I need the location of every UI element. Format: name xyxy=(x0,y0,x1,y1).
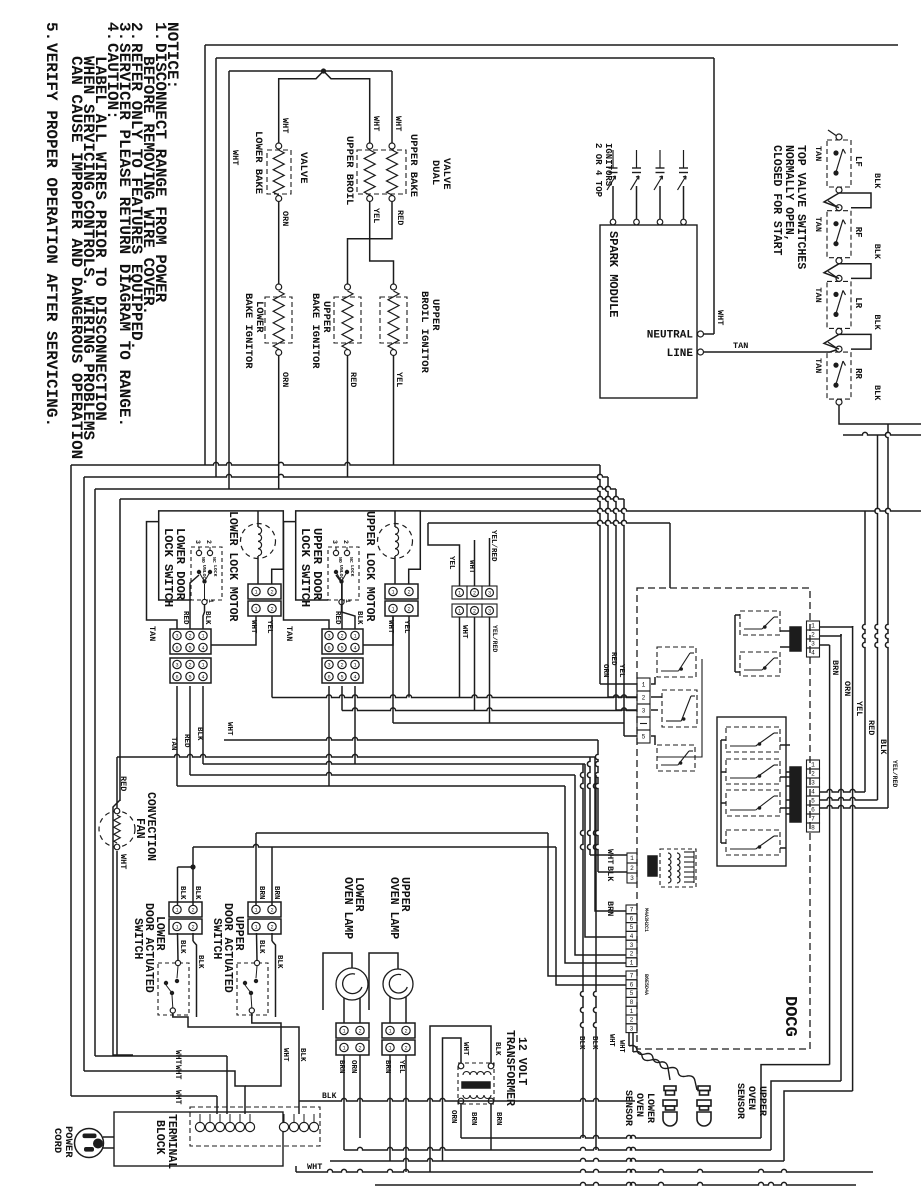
wire upper broil valve to upper broil ignitor xyxy=(370,202,394,284)
bus y740 xyxy=(224,737,598,740)
svg-text:RR: RR xyxy=(853,368,863,379)
svg-text:8: 8 xyxy=(630,999,634,1006)
wire BLK horizontal bottom xyxy=(299,1098,635,1101)
svg-text:LOCK: LOCK xyxy=(349,565,355,577)
svg-text:3: 3 xyxy=(630,875,634,882)
wire diagonal link xyxy=(824,193,839,208)
svg-text:5: 5 xyxy=(811,798,815,805)
relay K1 xyxy=(657,647,696,677)
LOWER door switch dashed box xyxy=(158,963,189,1015)
svg-text:4.: 4. xyxy=(103,22,121,41)
svg-text:BLK: BLK xyxy=(872,244,882,260)
svg-text:WHT: WHT xyxy=(281,1048,289,1062)
svg-text:TAN: TAN xyxy=(284,626,294,641)
wire lower bake valve to ignitor xyxy=(278,202,280,285)
wire YEL down xyxy=(271,616,273,698)
door lock switch UPPER dashed box xyxy=(328,547,359,600)
svg-text:8: 8 xyxy=(811,825,815,832)
svg-text:4: 4 xyxy=(201,675,204,681)
svg-text:2: 2 xyxy=(270,590,273,596)
wire W2 top xyxy=(216,57,714,59)
svg-text:WHT: WHT xyxy=(280,118,290,133)
svg-text:4: 4 xyxy=(201,646,204,652)
svg-text:3: 3 xyxy=(327,634,330,640)
lower door switch output BLK xyxy=(173,1013,299,1114)
wire motor top tee xyxy=(394,511,396,527)
svg-text:CORD: CORD xyxy=(51,1128,63,1153)
connector strip CA 1 2 3 xyxy=(452,586,467,599)
connector blob P4 xyxy=(648,856,657,876)
upper broil valve coil xyxy=(367,143,373,149)
relay K2 xyxy=(662,690,697,727)
wire W4 left vertical xyxy=(119,499,121,801)
wire CB drops xyxy=(459,617,461,640)
motor connector 1 xyxy=(385,584,418,599)
svg-text:ORN: ORN xyxy=(449,1110,457,1124)
lamp connector 1 xyxy=(382,1023,415,1038)
svg-text:TAN: TAN xyxy=(813,146,823,161)
svg-text:3: 3 xyxy=(331,540,338,544)
svg-text:YEL: YEL xyxy=(854,701,864,716)
svg-text:7: 7 xyxy=(630,907,634,914)
wire YEL down xyxy=(408,616,410,698)
wire pin5 stub xyxy=(651,736,655,745)
switch contact 3 xyxy=(196,550,201,555)
LOWER DOOR ACTUATED SWITCH connectors xyxy=(169,902,202,917)
relay K5 xyxy=(726,759,780,784)
wire TAN stub xyxy=(828,201,836,207)
motor connector 1 xyxy=(248,584,281,599)
wire vertical x888 YEL/RED xyxy=(885,424,888,808)
switch contacts xyxy=(254,960,259,965)
svg-text:3: 3 xyxy=(630,1025,634,1032)
connector blob P2 xyxy=(790,627,801,651)
svg-text:WHT: WHT xyxy=(173,1065,182,1080)
svg-text:1: 1 xyxy=(388,1046,391,1052)
svg-text:1: 1 xyxy=(353,663,356,669)
relay K4 xyxy=(726,727,780,752)
svg-text:1: 1 xyxy=(342,1029,345,1035)
svg-text:BLK: BLK xyxy=(298,1048,306,1062)
lock motor UPPER LOCK MOTOR xyxy=(378,524,413,559)
lamp connector 2 xyxy=(336,1040,369,1055)
wire S2 feeds xyxy=(548,833,626,976)
lamp connector 2 xyxy=(382,1040,415,1055)
bus RED y710 xyxy=(342,708,637,711)
convection fan motor xyxy=(99,811,135,847)
svg-text:WHT: WHT xyxy=(393,116,403,131)
svg-text:1: 1 xyxy=(201,634,204,640)
svg-text:RED: RED xyxy=(181,611,189,625)
svg-text:2 OR 4 TOP: 2 OR 4 TOP xyxy=(593,143,603,198)
svg-text:RED: RED xyxy=(333,611,341,625)
svg-text:3: 3 xyxy=(811,641,815,648)
svg-text:FAN: FAN xyxy=(133,818,146,839)
svg-text:1: 1 xyxy=(388,1029,391,1035)
bus TAN y786 xyxy=(177,785,565,787)
connector strip CB 1 2 3 xyxy=(452,604,467,617)
svg-text:1: 1 xyxy=(344,599,351,603)
svg-text:3: 3 xyxy=(642,708,646,715)
wire ORN down from lower bake ignitor xyxy=(278,356,280,489)
svg-text:WHT: WHT xyxy=(715,310,725,325)
junction node valve feed xyxy=(321,68,326,73)
bus y757 convection fan feed xyxy=(117,754,595,757)
relay K3 xyxy=(657,745,695,771)
big relay box left bus xyxy=(720,740,722,843)
svg-text:TAN: TAN xyxy=(813,358,823,373)
big relay box xyxy=(717,717,786,866)
svg-text:WHT: WHT xyxy=(617,1040,625,1053)
svg-text:2: 2 xyxy=(358,1046,361,1052)
relay cluster frame xyxy=(657,659,702,757)
upper door switch output WHT xyxy=(245,1013,281,1086)
svg-text:BRN: BRN xyxy=(469,1112,477,1126)
power cord plug xyxy=(75,1129,104,1158)
bus WHT y723 xyxy=(393,722,624,724)
svg-text:BLK: BLK xyxy=(203,611,211,625)
svg-text:WHT: WHT xyxy=(230,150,240,165)
svg-text:LOWER: LOWER xyxy=(644,1093,655,1123)
wire into DOCG pin 1 xyxy=(597,465,600,684)
svg-text:WHT: WHT xyxy=(461,1042,469,1056)
switch common terminal 1 xyxy=(202,599,207,604)
svg-text:RF: RF xyxy=(853,227,863,238)
DOCG connector P2 strip 1-4 xyxy=(807,621,820,630)
svg-text:BLK: BLK xyxy=(257,940,265,954)
bottom bus y1161 xyxy=(330,1158,784,1161)
svg-text:NC: NC xyxy=(348,557,354,563)
svg-text:BAKE IGNITOR: BAKE IGNITOR xyxy=(242,293,254,369)
wire YEL down from upper broil ignitor xyxy=(393,356,395,465)
svg-text:CAN CAUSE IMPROPER AND DANGERO: CAN CAUSE IMPROPER AND DANGEROUS OPERATI… xyxy=(67,56,85,459)
DOCG bottom connector strip 1 2 3 xyxy=(627,853,637,863)
svg-text:YEL: YEL xyxy=(397,1060,405,1074)
wire into DOCG pin 5 xyxy=(621,499,624,736)
wire W1 neutral bus top xyxy=(205,44,898,46)
svg-text:1: 1 xyxy=(201,663,204,669)
svg-text:LOWER LOCK MOTOR: LOWER LOCK MOTOR xyxy=(226,511,239,622)
svg-text:4: 4 xyxy=(353,675,356,681)
svg-text:3: 3 xyxy=(488,609,491,615)
svg-text:BRN: BRN xyxy=(272,886,280,900)
svg-text:VERIFY PROPER OPERATION AFTER: VERIFY PROPER OPERATION AFTER SERVICING. xyxy=(42,43,60,427)
svg-text:1: 1 xyxy=(207,599,214,603)
svg-text:5: 5 xyxy=(188,675,191,681)
wire vertical x853 YEL long xyxy=(852,626,854,1091)
svg-text:BLK: BLK xyxy=(590,1036,598,1050)
svg-text:UPPER LOCK MOTOR: UPPER LOCK MOTOR xyxy=(363,511,376,622)
svg-text:5: 5 xyxy=(340,675,343,681)
svg-text:1: 1 xyxy=(342,1046,345,1052)
UPPER DOOR ACTUATED SWITCH connectors xyxy=(248,902,281,917)
svg-text:BLK: BLK xyxy=(872,385,882,401)
wire RED from switch xyxy=(336,575,342,629)
svg-text:ORN: ORN xyxy=(349,1060,357,1074)
relay KB xyxy=(740,652,780,676)
spark module box xyxy=(600,225,697,398)
ignitor UPPER BAKE IGNITOR xyxy=(345,284,351,290)
buzzer coil box xyxy=(660,849,696,887)
svg-text:1: 1 xyxy=(458,609,461,615)
terminal LINE xyxy=(698,349,704,355)
svg-text:1.: 1. xyxy=(151,22,169,41)
svg-text:2: 2 xyxy=(358,1029,361,1035)
svg-text:BAKE IGNITOR: BAKE IGNITOR xyxy=(309,293,321,369)
svg-text:TAN: TAN xyxy=(169,737,177,751)
wire pin2 to relay K2 xyxy=(651,696,662,698)
wire into DOCG pin 3 YEL xyxy=(613,489,616,710)
svg-text:YEL: YEL xyxy=(371,208,381,223)
wire bus y511 to edge xyxy=(421,508,921,511)
svg-text:WHT: WHT xyxy=(605,849,615,864)
lamp1 down wires xyxy=(343,1055,345,1150)
svg-text:2: 2 xyxy=(404,1046,407,1052)
svg-text:WHT: WHT xyxy=(460,625,468,639)
svg-text:4: 4 xyxy=(630,933,634,940)
svg-text:NO: NO xyxy=(337,557,343,563)
wire block link xyxy=(211,616,256,645)
svg-text:6: 6 xyxy=(175,646,178,652)
wire TAN stub xyxy=(828,342,836,348)
upper bake valve coil xyxy=(389,143,395,149)
svg-text:TAN: TAN xyxy=(813,217,823,232)
svg-text:BRN: BRN xyxy=(257,886,265,900)
svg-text:NC: NC xyxy=(211,557,217,563)
svg-text:WHT: WHT xyxy=(371,116,381,131)
lamp connector 1 xyxy=(336,1023,369,1038)
wires into switch xyxy=(177,933,180,961)
svg-text:LOCK: LOCK xyxy=(212,565,218,577)
bottom bus y1150 xyxy=(344,1147,771,1150)
svg-text:BLK: BLK xyxy=(178,886,186,900)
svg-text:5: 5 xyxy=(630,990,634,997)
switch contact 2 xyxy=(207,550,212,555)
bottom bus y1138 xyxy=(461,1135,761,1138)
wire TAN into RR switch xyxy=(830,349,839,352)
svg-text:OVEN: OVEN xyxy=(633,1093,644,1117)
valve DUAL VALVE (upper bake / upper broil) xyxy=(357,150,406,194)
svg-text:ORN: ORN xyxy=(280,211,290,226)
wire W3 top xyxy=(229,70,392,72)
wire YEL/RED horizontal xyxy=(428,520,670,523)
spark electrode 2 xyxy=(634,219,640,225)
connector block upper xyxy=(322,629,363,654)
switch contact 3 xyxy=(333,550,338,555)
wire into DOCG pin 2 RED xyxy=(605,477,608,697)
svg-text:2: 2 xyxy=(340,634,343,640)
left rect around door switch section xyxy=(113,800,133,1055)
bottom bus WHT y1172 xyxy=(296,1169,873,1172)
svg-text:1: 1 xyxy=(254,925,257,931)
DOCG connector S1 strip 7-1 xyxy=(626,905,637,914)
svg-text:2: 2 xyxy=(270,925,273,931)
lamp wires xyxy=(343,998,345,1023)
wire W1 bus horizontal xyxy=(71,462,600,465)
bus y833 xyxy=(256,832,548,834)
svg-text:1: 1 xyxy=(642,682,646,689)
wire W3 bus horizontal xyxy=(95,486,616,489)
door lock switch LOWER dashed box xyxy=(191,547,222,600)
svg-text:2: 2 xyxy=(811,632,815,639)
wire BLK from switch xyxy=(203,605,205,629)
wire motor top tee xyxy=(257,511,259,527)
svg-text:UPPER BROIL: UPPER BROIL xyxy=(343,136,355,205)
wire BLK link xyxy=(839,264,871,279)
svg-text:2: 2 xyxy=(191,908,194,914)
svg-text:1: 1 xyxy=(630,855,634,862)
top valve switch RR xyxy=(827,352,851,399)
svg-text:BLK: BLK xyxy=(275,955,283,969)
svg-text:1: 1 xyxy=(630,1008,634,1015)
connector blob P3 xyxy=(790,767,801,822)
switch contact 2 xyxy=(344,550,349,555)
svg-text:BLOCK: BLOCK xyxy=(153,1120,166,1155)
svg-text:3: 3 xyxy=(175,634,178,640)
wire WHT fan bottom xyxy=(116,851,118,1056)
wire vertical x865 RED xyxy=(862,511,865,792)
relay K7 xyxy=(726,830,780,855)
spark electrode 1 xyxy=(610,219,616,225)
svg-text:BLK: BLK xyxy=(195,727,203,741)
relay K6 xyxy=(726,790,780,816)
bus y847 xyxy=(193,844,556,847)
svg-text:VALVE: VALVE xyxy=(297,152,309,184)
wire staircase bottom right 3 xyxy=(784,1091,853,1161)
svg-text:SENSOR: SENSOR xyxy=(734,1083,745,1119)
svg-text:RED: RED xyxy=(348,372,358,387)
LOWER outer loop A xyxy=(147,522,178,629)
svg-text:OVEN LAMP: OVEN LAMP xyxy=(387,877,400,939)
svg-text:YEL: YEL xyxy=(447,556,455,570)
wire staircase bottom right 2 xyxy=(771,1081,841,1150)
svg-text:CLOSED FOR START: CLOSED FOR START xyxy=(770,145,783,256)
svg-text:1: 1 xyxy=(254,908,257,914)
wire S1 feeds xyxy=(595,757,626,911)
wire block link xyxy=(363,616,393,645)
wire squiggle to lower sensor xyxy=(629,1046,670,1081)
wire C2 pin3 to x830 xyxy=(819,644,830,646)
svg-text:UPPER BAKE: UPPER BAKE xyxy=(407,134,419,197)
svg-text:SENSOR: SENSOR xyxy=(622,1090,633,1126)
connector block upper xyxy=(170,629,211,654)
comb connector xyxy=(684,851,694,853)
bus RED y775 xyxy=(190,772,575,775)
svg-text:2: 2 xyxy=(473,609,476,615)
wire BLK link xyxy=(839,193,871,208)
DOCG connector P3 strip 1-8 xyxy=(807,760,820,769)
switch dots xyxy=(334,570,338,574)
wire BLK link xyxy=(839,334,871,349)
svg-text:BLK: BLK xyxy=(878,739,888,755)
lock motor LOWER LOCK MOTOR xyxy=(241,524,276,559)
power cord wires xyxy=(103,1136,114,1138)
wire W2 neutral drop to spark module xyxy=(713,58,715,334)
svg-text:2: 2 xyxy=(270,607,273,613)
UPPER door switch dashed box xyxy=(237,963,268,1015)
svg-text:3: 3 xyxy=(811,780,815,787)
svg-text:YEL: YEL xyxy=(394,372,404,387)
svg-text:WHT: WHT xyxy=(307,1162,322,1172)
switch dots xyxy=(197,570,201,574)
svg-text:5.: 5. xyxy=(42,22,60,41)
DOCG left connector strip 1 2 3 - 5 xyxy=(637,678,650,691)
svg-text:7: 7 xyxy=(630,973,634,980)
wire BLK verticals to bottom xyxy=(580,764,583,1138)
svg-text:2: 2 xyxy=(188,663,191,669)
svg-text:5: 5 xyxy=(340,646,343,652)
svg-text:2: 2 xyxy=(407,607,410,613)
svg-text:ORN: ORN xyxy=(280,372,290,387)
svg-text:1: 1 xyxy=(630,959,634,966)
svg-text:YEL/RED: YEL/RED xyxy=(491,625,498,652)
bus YEL y697 xyxy=(272,695,637,698)
LOWER outer loop B xyxy=(159,511,284,600)
wire BLK from switch xyxy=(342,605,356,629)
svg-text:NEUTRAL: NEUTRAL xyxy=(647,330,694,342)
wire relay KA KB common xyxy=(734,615,736,672)
top valve switch LF xyxy=(827,140,851,187)
svg-text:2: 2 xyxy=(630,1017,634,1024)
top valve switch LR xyxy=(827,281,851,328)
bottom bus y1185 xyxy=(375,1182,856,1185)
svg-text:OVEN: OVEN xyxy=(745,1086,756,1110)
svg-text:2: 2 xyxy=(404,1029,407,1035)
wire motor bottom xyxy=(394,556,396,584)
svg-text:2: 2 xyxy=(342,540,349,544)
svg-text:RED: RED xyxy=(395,210,405,225)
svg-text:1: 1 xyxy=(458,591,461,597)
svg-text:1: 1 xyxy=(175,925,178,931)
svg-text:4: 4 xyxy=(353,646,356,652)
terminal block dashed box xyxy=(190,1107,320,1146)
svg-text:UPPER: UPPER xyxy=(232,916,245,951)
svg-text:BLK: BLK xyxy=(355,611,363,625)
svg-text:WHT: WHT xyxy=(118,854,128,869)
svg-text:BRN: BRN xyxy=(494,1112,502,1126)
wire RED from switch xyxy=(190,575,199,629)
wire pin1 to relay K1 xyxy=(651,677,655,684)
svg-text:DUAL: DUAL xyxy=(429,160,441,185)
svg-text:YEL/RED: YEL/RED xyxy=(891,760,898,787)
wire W1 left vertical xyxy=(70,465,72,1096)
wire C2 pin2 to x841 xyxy=(819,635,841,637)
wire W4 bus horizontal xyxy=(120,496,624,499)
svg-text:1: 1 xyxy=(254,590,257,596)
svg-text:BLK: BLK xyxy=(872,173,882,189)
ignitor LOWER BAKE IGNITOR xyxy=(276,284,282,290)
wires to oven sensors xyxy=(628,1032,630,1046)
svg-text:1: 1 xyxy=(353,634,356,640)
svg-text:BLK: BLK xyxy=(493,1042,501,1056)
wire diagonal link xyxy=(824,264,839,279)
svg-text:2: 2 xyxy=(811,771,815,778)
svg-text:BROIL IGNITOR: BROIL IGNITOR xyxy=(418,291,430,374)
svg-text:TAN: TAN xyxy=(733,341,748,351)
svg-text:WHT: WHT xyxy=(173,1050,182,1065)
svg-text:BLK: BLK xyxy=(196,955,204,969)
lamp2 down wires xyxy=(389,1055,391,1161)
svg-text:2: 2 xyxy=(642,695,646,702)
svg-text:3: 3 xyxy=(175,663,178,669)
svg-text:4: 4 xyxy=(811,789,815,796)
svg-text:6: 6 xyxy=(175,675,178,681)
wire motor bottom xyxy=(257,556,259,584)
wire vertical x841 ORN long xyxy=(840,634,842,1081)
svg-text:6: 6 xyxy=(630,981,634,988)
svg-text:TRANSFORMER: TRANSFORMER xyxy=(503,1030,516,1106)
svg-text:SPARK MODULE: SPARK MODULE xyxy=(606,231,620,317)
